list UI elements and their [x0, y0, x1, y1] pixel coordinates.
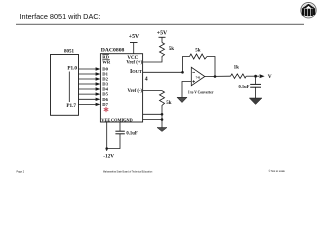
- svg-text:V: V: [268, 74, 272, 80]
- pin label P1.0: [67, 66, 77, 72]
- pin number 4: [145, 76, 148, 82]
- resistor R3 5k feedback: [190, 49, 208, 60]
- footer institute name: [103, 170, 153, 173]
- DAC U1 DAC0808 box: [100, 47, 142, 122]
- wire GND pin upper stub: [143, 113, 162, 115]
- svg-text:0.1uF: 0.1uF: [239, 84, 250, 89]
- svg-text:I to V Converter: I to V Converter: [188, 91, 214, 95]
- svg-text:Vref (-): Vref (-): [127, 89, 142, 94]
- wire op-amp output: [205, 75, 231, 77]
- ground symbol (Vref-/GND): [157, 128, 167, 132]
- pin label Vref (+): [126, 61, 142, 66]
- wire D6 with arrow: [79, 98, 101, 101]
- port range line P1.0-P1.7: [68, 72, 70, 103]
- svg-text:D7: D7: [102, 102, 108, 107]
- red asterisk marker: [104, 107, 108, 111]
- wire D2 with arrow: [79, 77, 101, 80]
- pin label P1.7: [66, 103, 76, 109]
- capacitor C1 0.1uF comp: [107, 122, 138, 149]
- pin label WR (active low): [102, 60, 111, 65]
- wire GND pin lower stub: [143, 119, 162, 121]
- pin label VCC: [127, 56, 138, 61]
- wire non-inverting input to ground: [182, 82, 191, 98]
- svg-text:VEE: VEE: [101, 117, 110, 122]
- supply label -12V: [103, 154, 114, 160]
- svg-text:-12V: -12V: [103, 154, 114, 160]
- pin label VEE: [101, 117, 110, 122]
- svg-text:Page 2: Page 2: [17, 171, 25, 174]
- pin label D6: [102, 97, 108, 102]
- svg-text:WR: WR: [102, 60, 111, 65]
- svg-text:5k: 5k: [195, 49, 201, 54]
- wire D0 with arrow: [79, 67, 101, 70]
- svg-text:+5V: +5V: [129, 34, 140, 40]
- capacitor C2 0.1uF output: [239, 76, 261, 98]
- wire D1 with arrow: [79, 72, 101, 75]
- wire VEE pin to -12V: [106, 122, 108, 151]
- pin label D3: [102, 82, 108, 87]
- pin label RD (active low): [102, 55, 109, 60]
- svg-text:0.1uF: 0.1uF: [126, 132, 137, 137]
- wire D7 with arrow: [79, 103, 101, 106]
- wire Vref+ pin to R1: [143, 59, 162, 62]
- pin label COMP: [111, 117, 125, 122]
- wire D4 with arrow: [79, 87, 101, 90]
- node inverting input junction dot: [181, 71, 184, 74]
- svg-text:Vref (+): Vref (+): [126, 61, 142, 66]
- ground symbol (output cap): [249, 98, 262, 105]
- node junction dot lower: [161, 118, 164, 121]
- wire R2 bottom to ground: [161, 109, 163, 128]
- svg-text:4: 4: [145, 76, 148, 82]
- pin label D1: [102, 72, 108, 77]
- resistor R1 5k (Vref+ to +5V): [160, 43, 175, 59]
- power +5V supply at VCC: [129, 34, 140, 54]
- wire D5 with arrow: [79, 92, 101, 95]
- wire IOUT pin to op-amp input: [143, 71, 183, 73]
- institute logo: [301, 3, 316, 18]
- svg-text:741: 741: [196, 75, 201, 79]
- pin label Vref (-): [127, 89, 142, 94]
- pin label D7: [102, 102, 108, 107]
- resistor R2 5k (Vref- to ground): [160, 91, 172, 109]
- pin label GND: [123, 117, 133, 122]
- svg-text:5k: 5k: [169, 47, 175, 52]
- svg-text:5k: 5k: [166, 101, 172, 106]
- output arrow to V: [260, 74, 272, 80]
- svg-text:P1.7: P1.7: [66, 103, 76, 109]
- svg-text:1k: 1k: [234, 65, 240, 70]
- svg-text:DAC0808: DAC0808: [101, 47, 125, 53]
- svg-text:Maharashtra State Board of Tec: Maharashtra State Board of Technical Edu…: [103, 170, 153, 173]
- svg-text:+5V: +5V: [157, 30, 168, 36]
- wire D3 with arrow: [79, 82, 101, 85]
- pin label IOUT: [130, 69, 142, 75]
- wire feedback loop: [183, 57, 216, 77]
- pin label D0: [102, 67, 108, 72]
- resistor R4 1k: [231, 65, 247, 78]
- node VEE junction dot: [105, 147, 108, 150]
- svg-text:IOUT: IOUT: [130, 69, 142, 75]
- svg-text:GND: GND: [123, 117, 133, 122]
- pin label D5: [102, 92, 108, 97]
- svg-text:© Not to scale: © Not to scale: [269, 169, 286, 173]
- node output junction dot: [214, 75, 217, 78]
- wire Vref- pin to R2: [143, 90, 162, 92]
- node junction dot upper: [161, 113, 164, 116]
- svg-text:8051: 8051: [64, 50, 75, 55]
- wire 1k to output node: [246, 75, 259, 77]
- power +5V supply at Vref+ resistor: [157, 30, 168, 42]
- footer page number: [17, 171, 25, 174]
- microcontroller 8051 box: [51, 50, 79, 116]
- title text: [20, 12, 101, 21]
- pin label D2: [102, 77, 108, 82]
- node output V junction dot: [254, 75, 257, 78]
- footer right note: [269, 169, 286, 173]
- svg-text:Interface 8051 with DAC:: Interface 8051 with DAC:: [20, 12, 101, 21]
- ground symbol (op-amp +): [177, 97, 187, 102]
- label I to V Converter: [188, 91, 214, 95]
- op-amp U2 741: [191, 67, 205, 85]
- svg-text:P1.0: P1.0: [67, 66, 77, 72]
- title underline rule: [16, 23, 304, 25]
- pin label D4: [102, 87, 108, 92]
